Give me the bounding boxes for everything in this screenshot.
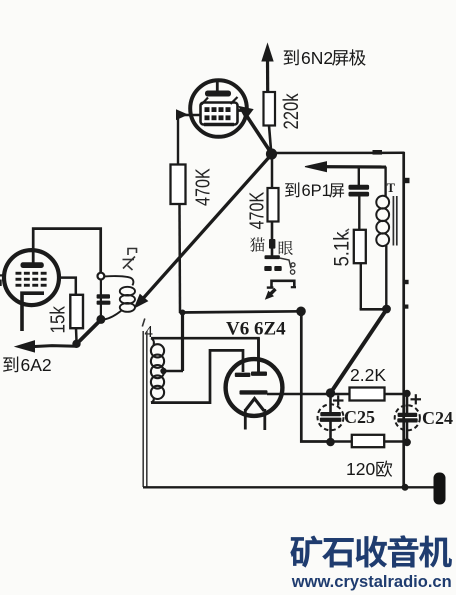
- svg-text:V6 6Z4: V6 6Z4: [226, 319, 286, 340]
- capacitor C24: [395, 394, 421, 443]
- svg-text:6P1: 6P1: [302, 182, 331, 200]
- winding 4: [151, 338, 259, 402]
- label 到6P1屏: [285, 182, 344, 200]
- resistor 2.2K: [331, 388, 408, 401]
- node heater tap corner: [180, 310, 186, 316]
- wire node to right rail: [271, 150, 405, 155]
- resistor 470K magic eye: [268, 158, 279, 256]
- terminal circle: [98, 273, 105, 280]
- svg-text:15k: 15k: [46, 306, 69, 334]
- coil detector: [104, 276, 135, 319]
- magic eye symbol: [264, 255, 296, 299]
- svg-text:C24: C24: [422, 408, 453, 428]
- wire grid-left with arrowhead: [177, 110, 201, 165]
- label 120欧: [346, 459, 392, 479]
- svg-text:www.crystalradio.cn: www.crystalradio.cn: [291, 573, 452, 591]
- wire center tap: [164, 313, 184, 372]
- label 到6A2: [3, 355, 52, 375]
- wire B- down and to C25 bottom: [301, 311, 331, 441]
- svg-text:T: T: [387, 181, 396, 195]
- svg-text:2.2K: 2.2K: [350, 365, 386, 385]
- core adjust marks: [123, 249, 137, 271]
- wire diagonal node to detector coil: [135, 155, 272, 308]
- svg-text:6A2: 6A2: [21, 355, 52, 375]
- resistor 5.1k: [354, 230, 387, 309]
- resistor 120 ohm: [331, 435, 408, 447]
- node C25 top: [326, 388, 335, 397]
- svg-text:5.1k: 5.1k: [330, 232, 353, 267]
- tube U1 triode: [4, 249, 59, 331]
- wire cathode to C25 node: [267, 393, 331, 396]
- node B+ junction: [266, 148, 277, 159]
- wire with arrowhead to 6A2: [16, 340, 81, 352]
- resistor 470K grid leak: [171, 165, 186, 314]
- svg-text:C25: C25: [344, 407, 375, 427]
- svg-text:4: 4: [145, 322, 153, 341]
- wire bus to B- node: [180, 311, 302, 312]
- capacitor C25: [318, 393, 344, 442]
- tube U2 socket top view: [190, 80, 247, 137]
- transformer T winding: [376, 167, 389, 310]
- svg-text:6N2: 6N2: [301, 48, 333, 68]
- resistor 15k: [59, 278, 83, 341]
- label 到6N2屏极: [284, 48, 366, 68]
- stub left edge: [0, 274, 6, 276]
- wire diagonal B+ to C25 node: [331, 310, 387, 394]
- transformer core lines: [143, 331, 147, 487]
- wire socket-right diagonal to node: [238, 107, 272, 154]
- terminal bar: [434, 473, 446, 505]
- wire to 6P1 with left arrowhead: [305, 162, 386, 172]
- svg-text:470K: 470K: [245, 191, 268, 229]
- resistor 220k: [264, 92, 276, 150]
- transformer T core: [393, 196, 396, 246]
- bottom rail wire: [143, 486, 436, 488]
- capacitor tank: [97, 280, 111, 319]
- right rail: [404, 152, 410, 488]
- wire plate top to terminal: [33, 229, 101, 273]
- wire diagonal 15k to tank: [77, 320, 102, 344]
- node B- top: [296, 307, 306, 317]
- svg-text:120: 120: [346, 459, 375, 479]
- junction dot tank bottom: [96, 315, 105, 324]
- arrow to 6N2 plate: [262, 44, 273, 93]
- watermark 矿石收音机: [290, 535, 452, 567]
- tube V6 6Z4: [226, 338, 283, 430]
- label 猫 眼: [250, 237, 265, 251]
- svg-text:220k: 220k: [280, 93, 303, 129]
- capacitor coupling: [349, 167, 369, 230]
- svg-text:470K: 470K: [191, 168, 214, 206]
